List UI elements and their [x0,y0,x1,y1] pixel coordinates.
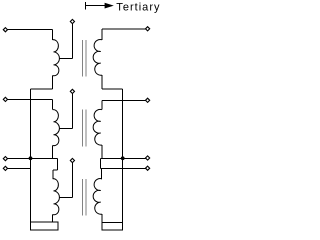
core T3 left bar [81,179,83,216]
terminal L3a [3,157,7,161]
junction dot right [121,156,125,160]
wire T3 tertiary tap [71,163,73,198]
wire T2 secondary top lead [102,99,146,101]
wire T3 left bus row1 [7,157,57,159]
terminal R2 [146,98,150,102]
core T1 left bar [81,40,83,77]
core T3 right bar [85,179,87,216]
wire left neutral rail [30,89,32,230]
transformer T1 primary winding [53,40,60,76]
wire T2 primary bottom lead [52,145,54,158]
tertiary arrow tail tick [85,2,87,10]
transformer T2 primary winding [53,110,60,146]
wire T1 secondary top lead [102,28,146,30]
wire T3 primary bottom lead [52,215,54,223]
wire T1 primary bottom lead [52,76,54,89]
junction dot left [29,156,33,160]
wire T3 right bottom loop [102,222,123,230]
terminal tap1 [70,19,74,23]
transformer T2 secondary winding [93,109,102,145]
transformer T1 secondary winding [93,40,102,76]
terminal L1 [3,28,7,32]
terminal tap2 [70,89,74,93]
wire right neutral rail [122,89,124,230]
terminal tap3 [70,158,74,162]
svg-text:Tertiary: Tertiary [116,2,160,14]
terminal R1 [146,27,150,31]
wire T1 primary top lead [7,29,52,31]
terminal L2 [3,97,7,101]
wire T3 right bus row2 [100,167,145,169]
terminal R3a [146,156,150,160]
wire T3 left bus row2 [7,167,30,169]
wire T3 right bus row1 [100,157,145,159]
core T2 right bar [85,110,87,147]
core T1 right bar [85,40,87,77]
wire T2 secondary bottom lead [101,145,103,158]
transformer T3 primary winding [53,179,60,215]
wire T3 left bottom loop [31,222,58,230]
wire T2 primary top lead [7,98,52,100]
core T2 left bar [81,110,83,147]
wire T1 secondary bottom lead [101,75,103,89]
transformer T3 secondary winding [93,179,102,215]
wire T3 secondary bottom lead [101,214,103,222]
tertiary arrow head [105,3,114,9]
tertiary arrow shaft [86,5,108,7]
terminal R3b [146,166,150,170]
wire T2 tertiary tap [71,93,73,128]
terminal L3b [3,166,7,170]
wire T1 tertiary tap [71,24,73,59]
